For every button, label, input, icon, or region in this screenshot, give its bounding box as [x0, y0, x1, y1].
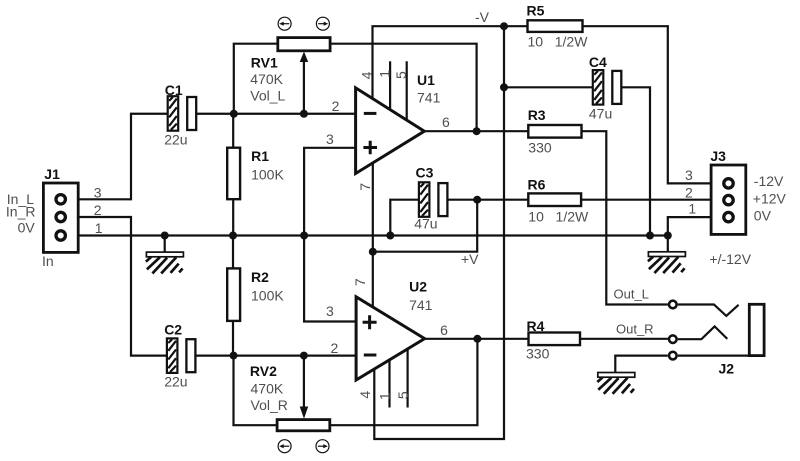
svg-text:0V: 0V	[754, 207, 772, 223]
svg-text:In_R: In_R	[6, 203, 36, 219]
svg-text:5: 5	[395, 391, 411, 399]
svg-text:C3: C3	[416, 165, 434, 181]
svg-text:2: 2	[331, 340, 339, 356]
svg-text:7: 7	[352, 278, 368, 286]
svg-text:+V: +V	[461, 251, 479, 267]
svg-text:R1: R1	[251, 148, 269, 164]
svg-text:Out_L: Out_L	[614, 286, 649, 301]
svg-text:2: 2	[685, 184, 693, 200]
svg-text:4: 4	[357, 391, 373, 399]
svg-text:RV1: RV1	[251, 54, 278, 70]
svg-text:J2: J2	[719, 361, 735, 377]
svg-text:1: 1	[377, 392, 393, 400]
svg-text:22u: 22u	[164, 132, 187, 148]
svg-text:470K: 470K	[250, 71, 283, 87]
svg-text:U2: U2	[409, 279, 427, 295]
svg-text:1: 1	[376, 70, 392, 78]
svg-text:7: 7	[357, 183, 373, 191]
svg-text:R6: R6	[528, 177, 546, 193]
svg-text:C4: C4	[589, 54, 607, 70]
svg-text:741: 741	[409, 297, 433, 313]
svg-text:+12V: +12V	[753, 190, 787, 206]
svg-text:330: 330	[528, 140, 552, 156]
svg-text:1: 1	[95, 220, 103, 236]
svg-text:3: 3	[94, 185, 102, 201]
svg-text:R5: R5	[527, 3, 545, 19]
svg-text:2: 2	[332, 98, 340, 114]
svg-text:330: 330	[526, 346, 550, 362]
svg-text:6: 6	[440, 322, 448, 338]
svg-text:100K: 100K	[251, 288, 284, 304]
svg-text:J1: J1	[44, 166, 60, 182]
svg-text:3: 3	[326, 131, 334, 147]
svg-text:Vol_R: Vol_R	[251, 397, 288, 413]
svg-text:2: 2	[94, 202, 102, 218]
svg-text:10 1/2W: 10 1/2W	[528, 34, 589, 50]
svg-text:10 1/2W: 10 1/2W	[528, 209, 589, 225]
svg-text:Out_R: Out_R	[616, 321, 654, 336]
svg-text:22u: 22u	[164, 374, 187, 390]
svg-text:0V: 0V	[18, 220, 36, 236]
svg-text:3: 3	[685, 167, 693, 183]
svg-text:U1: U1	[417, 72, 435, 88]
svg-text:741: 741	[417, 90, 441, 106]
svg-text:100K: 100K	[251, 167, 284, 183]
svg-text:R4: R4	[527, 318, 545, 334]
svg-text:C1: C1	[165, 82, 183, 98]
svg-text:J3: J3	[710, 148, 726, 164]
svg-text:3: 3	[326, 303, 334, 319]
svg-text:R3: R3	[528, 107, 546, 123]
svg-text:470K: 470K	[251, 380, 284, 396]
svg-text:Vol_L: Vol_L	[250, 87, 285, 103]
svg-text:47u: 47u	[589, 106, 612, 122]
svg-text:R2: R2	[251, 269, 269, 285]
svg-text:C2: C2	[164, 322, 182, 338]
svg-text:+/-12V: +/-12V	[709, 251, 751, 267]
svg-text:1: 1	[688, 201, 696, 217]
svg-text:RV2: RV2	[250, 363, 277, 379]
svg-text:6: 6	[442, 114, 450, 130]
svg-text:-12V: -12V	[754, 173, 784, 189]
svg-text:In: In	[42, 253, 54, 269]
svg-text:-V: -V	[475, 9, 490, 25]
svg-text:4: 4	[359, 71, 375, 79]
svg-text:47u: 47u	[414, 215, 437, 231]
svg-text:5: 5	[393, 71, 409, 79]
